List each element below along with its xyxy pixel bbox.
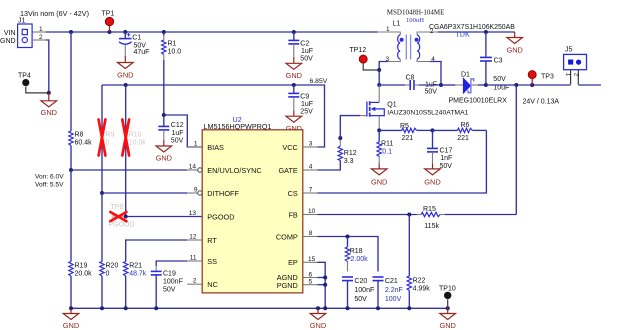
pin 12 RT (187, 234, 217, 245)
svg-text:R8: R8 (75, 132, 84, 139)
svg-text:R15: R15 (423, 206, 436, 213)
resistor R20 (100, 193, 119, 308)
capacitor C19 (151, 266, 183, 308)
svg-text:GND: GND (117, 70, 133, 79)
svg-text:VCC: VCC (282, 143, 297, 152)
test point TP4 (18, 73, 49, 93)
wire bottom ground rail (71, 307, 448, 309)
transistor Q1 (360, 85, 469, 130)
wire J1 pin2 to GND (32, 40, 49, 93)
svg-text:J1: J1 (18, 18, 26, 25)
wire R12 to Q1 gate (340, 116, 360, 138)
junction dot R12 top (338, 136, 342, 140)
svg-text:221: 221 (402, 135, 414, 142)
junction dot switch node row (377, 83, 381, 87)
wire switch node vertical (378, 70, 380, 85)
capacitor C8 (406, 75, 442, 96)
DNP cross TP8 (110, 212, 126, 221)
capacitor C3 (480, 32, 509, 91)
svg-text:1: 1 (39, 26, 43, 33)
junction dot PGOOD/TP8 (124, 215, 128, 219)
diode D1 PMEG10010ELRX (441, 72, 507, 105)
resistor R18 (345, 237, 368, 272)
resistor R12 (338, 138, 357, 165)
resistor R15 (417, 206, 517, 230)
resistor R9 DNP ghost (106, 132, 115, 147)
svg-text:6: 6 (309, 271, 313, 278)
DNP cross R9 (99, 120, 106, 156)
svg-text:C3: C3 (494, 57, 503, 64)
test point TP10 (439, 286, 456, 309)
junction dot rail/R22 (407, 306, 411, 310)
svg-text:4: 4 (309, 164, 313, 171)
junction dot VCC/R10 (124, 83, 128, 87)
svg-text:VIN: VIN (4, 30, 16, 37)
junction dot VIN rail / C1 (123, 30, 127, 34)
pin 13 PGOOD (189, 210, 235, 221)
svg-text:R12: R12 (344, 150, 357, 157)
svg-text:GND: GND (0, 38, 16, 45)
capacitor C1 (119, 32, 149, 56)
svg-text:R19: R19 (75, 263, 88, 270)
capacitor C21 (373, 277, 403, 308)
svg-text:14: 14 (189, 164, 197, 171)
capacitor C20 (342, 277, 374, 308)
resistor R10 DNP ghost (129, 132, 147, 147)
pin 2 NC (187, 278, 218, 289)
test point TP3 (528, 71, 554, 85)
pin 7 CS (288, 187, 318, 198)
svg-text:221: 221 (457, 135, 469, 142)
resistor R21 (124, 240, 188, 308)
svg-text:10.0: 10.0 (168, 49, 182, 56)
svg-text:100nF: 100nF (163, 279, 183, 286)
svg-text:1: 1 (565, 73, 572, 77)
junction dot COMP/R18 (346, 235, 350, 239)
inductor L1 coupled MSD1048H-104ME (378, 9, 445, 64)
resistor R5 (379, 123, 432, 142)
svg-text:EN/UVLO/SYNC: EN/UVLO/SYNC (207, 166, 261, 175)
svg-text:100nF: 100nF (354, 287, 374, 294)
pin 5 PGND (277, 279, 318, 291)
pin 15 EP (288, 256, 317, 267)
capacitor C12 (158, 115, 183, 145)
junction dot AGND (323, 276, 327, 280)
wire J5 pin2 stub (578, 84, 601, 86)
junction dot VIN rail / R8 (69, 30, 73, 34)
svg-text:C17: C17 (440, 147, 453, 154)
svg-text:4.99k: 4.99k (413, 286, 431, 293)
svg-text:9: 9 (194, 187, 198, 194)
svg-text:GND: GND (286, 71, 302, 80)
svg-text:BIAS: BIAS (207, 143, 224, 152)
svg-text:0: 0 (106, 271, 110, 278)
svg-text:1: 1 (194, 141, 198, 148)
junction dot rail/EP (323, 306, 327, 310)
capacitor C9 (288, 85, 313, 115)
svg-text:50V: 50V (354, 296, 367, 303)
svg-text:J5: J5 (565, 47, 573, 54)
junction dot Q1 source node (377, 128, 381, 132)
svg-text:50V: 50V (163, 287, 176, 294)
svg-text:1nF: 1nF (440, 155, 452, 162)
svg-text:48.7k: 48.7k (129, 271, 147, 278)
svg-text:2.00k: 2.00k (351, 256, 369, 263)
junction dot BIAS/C12 (162, 113, 166, 117)
ground GND (C2) (286, 57, 302, 80)
svg-text:D1: D1 (461, 72, 470, 79)
svg-text:GND: GND (424, 178, 440, 187)
svg-text:20.0k: 20.0k (75, 271, 93, 278)
junction dot rail/R21 (124, 306, 128, 310)
svg-text:CGA6P3X7S1H106K250AB: CGA6P3X7S1H106K250AB (429, 24, 515, 31)
svg-text:3.3: 3.3 (344, 158, 354, 165)
svg-text:CS: CS (288, 189, 298, 198)
junction dot rail/TP10 (446, 306, 450, 310)
svg-text:R6: R6 (461, 122, 470, 129)
svg-text:C2: C2 (300, 40, 309, 47)
pin 6 AGND (277, 271, 318, 282)
svg-text:R20: R20 (106, 263, 119, 270)
svg-text:11: 11 (190, 255, 197, 262)
svg-text:TP8: TP8 (111, 204, 124, 211)
svg-text:10: 10 (308, 208, 316, 215)
svg-text:MSD1048H-104ME: MSD1048H-104ME (387, 9, 445, 17)
svg-text:C9: C9 (300, 93, 309, 100)
svg-text:2: 2 (193, 278, 197, 285)
svg-text:PGOOD: PGOOD (207, 212, 234, 221)
svg-text:24V / 0.13A: 24V / 0.13A (523, 98, 560, 105)
ground GND (rail left) (63, 308, 79, 330)
resistor R6 (433, 122, 487, 142)
junction dot C3 top (484, 30, 488, 34)
wire L1 pin4 down (430, 62, 441, 86)
svg-text:GND: GND (41, 108, 57, 117)
wire switch row to C8 (379, 84, 410, 86)
svg-text:GND: GND (63, 321, 79, 330)
svg-text:1uF: 1uF (172, 130, 184, 137)
svg-text:FB: FB (288, 210, 297, 219)
capacitor C2 (288, 32, 313, 62)
svg-text:12: 12 (189, 234, 197, 241)
svg-text:PGND: PGND (277, 281, 298, 290)
pin 3 VCC (282, 141, 317, 152)
ground GND (J1/TP4) (41, 93, 57, 117)
svg-text:EP: EP (288, 258, 298, 267)
wire FB row (318, 214, 417, 216)
resistor R1 (162, 32, 182, 115)
svg-text:R21: R21 (129, 263, 142, 270)
pin 10 FB (288, 208, 317, 219)
svg-text:7: 7 (309, 187, 313, 194)
junction dot D1/C3/out (484, 83, 488, 87)
junction dot rail/C19 (154, 306, 158, 310)
svg-text:50V: 50V (171, 138, 184, 145)
wire R15 to output (515, 85, 517, 215)
svg-text:GND: GND (156, 154, 172, 163)
svg-text:100V: 100V (385, 296, 402, 303)
svg-text:C20: C20 (354, 278, 367, 285)
svg-text:DITHOFF: DITHOFF (207, 189, 239, 198)
pin 9 DITHOFF (187, 187, 239, 198)
svg-text:SS: SS (207, 257, 217, 266)
wire L1 pin2 to GND rail (438, 31, 515, 33)
svg-text:PMEG10010ELRX: PMEG10010ELRX (449, 98, 508, 105)
svg-text:3: 3 (309, 141, 313, 148)
junction dot rail/R20 (100, 306, 104, 310)
svg-text:50V: 50V (493, 76, 506, 83)
svg-text:6.85V: 6.85V (310, 78, 328, 85)
svg-text:Voff: 5.5V: Voff: 5.5V (35, 182, 64, 189)
svg-text:Von: 6.0V: Von: 6.0V (35, 174, 64, 181)
svg-text:50V: 50V (425, 89, 438, 96)
wire DITHOFF (102, 192, 187, 194)
svg-text:C21: C21 (385, 278, 398, 285)
svg-text:NC: NC (207, 280, 218, 289)
svg-text:GND: GND (310, 321, 326, 330)
svg-text:10.0k: 10.0k (129, 140, 147, 147)
svg-text:2: 2 (572, 73, 579, 77)
svg-text:115k: 115k (424, 223, 439, 230)
resistor R11 (377, 130, 393, 163)
junction dot out/TP3 (530, 83, 534, 87)
resistor R8 (69, 131, 92, 170)
ground GND (C17) (424, 164, 440, 187)
svg-text:C19: C19 (163, 271, 176, 278)
wire EN/UVLO (71, 169, 187, 171)
svg-text:RT: RT (207, 236, 217, 245)
pin 11 SS (187, 255, 217, 266)
wire EP/AGND/PGND (318, 262, 326, 308)
ground GND (C12) (156, 140, 172, 163)
svg-text:0.1: 0.1 (382, 148, 392, 155)
wire VCC 6.85V rail (102, 85, 325, 147)
svg-text:R9: R9 (106, 132, 115, 139)
junction dot rail/GND2 (316, 306, 320, 310)
wire PGOOD (126, 216, 202, 218)
pin 8 COMP (276, 230, 318, 241)
wire SS (156, 261, 187, 266)
capacitor C17 (427, 130, 452, 170)
test point TP12 (350, 47, 380, 70)
svg-text:R22: R22 (413, 278, 426, 285)
junction dot rail/C20 (346, 306, 350, 310)
svg-text:13: 13 (189, 210, 197, 217)
ground GND (C1) (117, 56, 133, 79)
junction dot PGND (323, 283, 327, 287)
svg-text:TP12: TP12 (350, 47, 367, 54)
wire VIN top rail (32, 31, 378, 33)
junction dot DITHOFF node (100, 191, 104, 195)
junction dot EN node (69, 168, 73, 172)
svg-text:COMP: COMP (276, 232, 298, 241)
junction dot rail/R19 (69, 306, 73, 310)
op-amp U2 LM5156HQPWPRQ1 (IC body) (202, 115, 303, 293)
connector J5 (564, 47, 587, 85)
svg-text:C1: C1 (132, 35, 141, 42)
wire BIAS feed (164, 115, 202, 147)
svg-text:R18: R18 (350, 248, 363, 255)
junction dot out/R15 branch (514, 83, 518, 87)
svg-text:C8: C8 (406, 75, 415, 82)
resistor R22 (407, 215, 430, 309)
wire R10 column (125, 85, 127, 217)
wire L1 pin3 to switch node (379, 62, 388, 71)
svg-text:LM5156HQPWPRQ1: LM5156HQPWPRQ1 (204, 122, 272, 131)
svg-text:25V: 25V (300, 108, 313, 115)
svg-text:L1: L1 (393, 21, 401, 28)
junction dot R5/C17/R6 (431, 128, 435, 132)
svg-text:50V: 50V (300, 55, 313, 62)
label Von/Voff (35, 174, 64, 189)
resistor R19 (69, 170, 92, 308)
svg-text:TP3: TP3 (541, 73, 554, 80)
connector J1 (0, 18, 43, 48)
junction dot VCC/C9 (292, 83, 296, 87)
junction dot FB/R22 (407, 213, 411, 217)
svg-text:5: 5 (309, 279, 313, 286)
pin 1 BIAS (187, 141, 224, 152)
svg-text:R10: R10 (129, 132, 142, 139)
test point TP8 DNP ghost (109, 204, 135, 229)
svg-text:1uF: 1uF (301, 101, 313, 108)
pin 4 GATE (278, 164, 317, 175)
svg-text:GND: GND (371, 178, 387, 187)
svg-text:100uH: 100uH (406, 17, 424, 24)
ground GND (R11) (371, 164, 387, 187)
junction dot VIN rail / C2 (292, 30, 296, 34)
wire COMP row (318, 237, 379, 272)
ground GND (C9) (286, 111, 302, 133)
pin 14 EN/UVLO/SYNC (187, 164, 261, 175)
svg-text:50V: 50V (440, 163, 453, 170)
svg-text:GND: GND (439, 321, 455, 330)
svg-text:GND: GND (506, 45, 522, 54)
junction dot rail/C21 (376, 306, 380, 310)
svg-text:R5: R5 (400, 123, 409, 130)
wire CS loop (318, 130, 487, 193)
svg-text:GATE: GATE (278, 166, 297, 175)
svg-text:R11: R11 (381, 140, 393, 147)
junction dot TP12/switch (377, 68, 381, 72)
svg-text:IAUZ30N10S5L240ATMA1: IAUZ30N10S5L240ATMA1 (387, 110, 468, 117)
ground GND (top right) (506, 32, 522, 54)
svg-text:2.2nF: 2.2nF (385, 287, 403, 294)
svg-text:PGOOD: PGOOD (109, 222, 135, 229)
svg-text:15: 15 (308, 256, 316, 263)
svg-text:47uF: 47uF (134, 49, 150, 56)
wire output rail (486, 84, 571, 86)
svg-text:TP4: TP4 (18, 73, 31, 80)
ground GND (rail mid) (310, 308, 326, 330)
junction dot VIN rail / TP1 (108, 30, 112, 34)
svg-text:1uF: 1uF (301, 48, 313, 55)
svg-text:TP10: TP10 (439, 286, 456, 293)
svg-text:8: 8 (309, 230, 313, 237)
DNP cross R10 (122, 120, 129, 156)
svg-text:60.4k: 60.4k (75, 140, 93, 147)
svg-text:13Vin nom (6V - 42V): 13Vin nom (6V - 42V) (20, 9, 89, 18)
svg-text:C12: C12 (171, 122, 184, 129)
wire R8 column (VIN divider) (70, 32, 72, 131)
wire R9/R20 column (101, 85, 103, 193)
svg-text:R1: R1 (168, 41, 177, 48)
junction dot L1 pin4 / C8 / D1 (439, 83, 443, 87)
ground GND (TP10) (439, 308, 455, 330)
wire GATE to R12 (318, 161, 341, 171)
junction dot VIN rail / R1 (162, 30, 166, 34)
svg-text:TP1: TP1 (102, 11, 115, 18)
svg-text:0: 0 (106, 140, 110, 147)
svg-text:Q1: Q1 (387, 102, 396, 109)
junction dot TP4/J1 gnd (47, 91, 51, 95)
test point TP1 (102, 11, 115, 33)
